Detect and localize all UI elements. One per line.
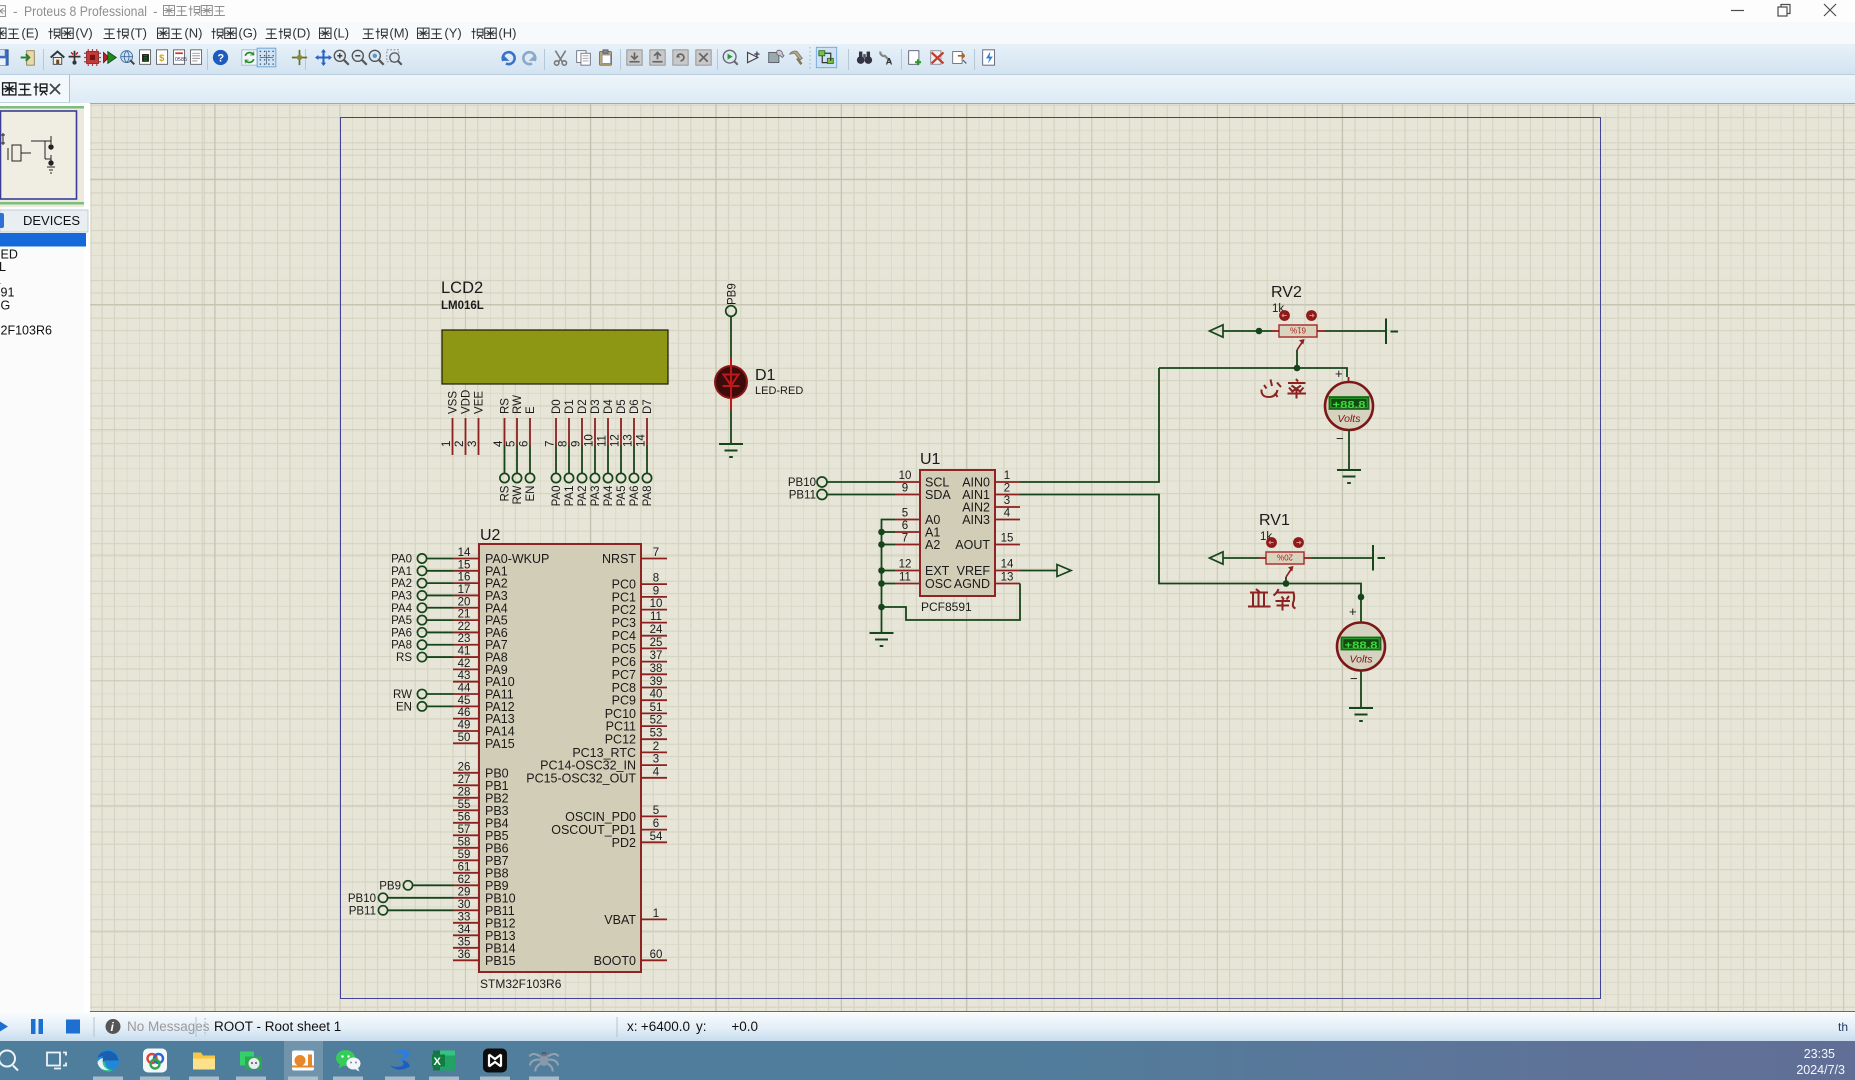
svg-text:Volts: Volts [1350, 654, 1374, 666]
RV1 wiper arrow [1286, 568, 1292, 577]
U2 pin 56 PB4 [453, 822, 479, 824]
svg-text:VREF: VREF [957, 564, 991, 578]
U2 pin 40 PC9 [641, 699, 667, 701]
arrow VREF (off-page) [1057, 565, 1071, 577]
svg-text:2: 2 [454, 441, 466, 447]
U2 pin 26 PB0 [453, 772, 479, 774]
U2 pin 50 PA15 [453, 742, 479, 744]
U2 pin 49 PA14 [453, 730, 479, 732]
svg-text:PA0: PA0 [391, 554, 412, 566]
svg-text:U2: U2 [480, 527, 501, 544]
U2 pin 1 VBAT [641, 918, 667, 920]
svg-text:35: 35 [458, 936, 471, 948]
svg-text:40: 40 [650, 689, 663, 701]
U2 pin 34 PB13 [453, 934, 479, 936]
U1 pin 11 OSC [895, 583, 920, 585]
svg-text:?: ? [217, 52, 224, 64]
svg-text:26: 26 [458, 761, 471, 773]
chip U1 PCF8591 body [920, 470, 995, 596]
RV2 wiper arrow [1297, 341, 1303, 350]
U1 pin 15 AOUT [995, 544, 1020, 546]
svg-text:50: 50 [458, 732, 471, 744]
svg-text:PCF8591: PCF8591 [921, 600, 972, 614]
U2 pin 46 PA13 [453, 718, 479, 720]
U2 pin 8 PC0 [641, 583, 667, 585]
svg-text:6: 6 [902, 520, 908, 532]
svg-text:PB10: PB10 [348, 893, 376, 905]
svg-text:PC12: PC12 [605, 733, 636, 747]
ground (D1) [719, 444, 743, 457]
svg-text:16: 16 [458, 572, 471, 584]
wire PB11-SDA [827, 494, 895, 496]
svg-text:(V): (V) [75, 26, 92, 41]
svg-text:Volts: Volts [1338, 413, 1362, 425]
U1 pin 3 AIN2 [995, 506, 1020, 508]
svg-text:RS: RS [500, 485, 512, 501]
svg-text:12: 12 [610, 434, 622, 447]
U2 pin 30 PB11 [453, 909, 479, 911]
svg-text:8: 8 [653, 573, 659, 585]
svg-text:D6: D6 [629, 399, 641, 414]
LED D1 [715, 358, 747, 410]
wire [594, 445, 596, 473]
wire [620, 445, 622, 473]
svg-text:43: 43 [458, 670, 471, 682]
U2 pin 38 PC7 [641, 673, 667, 675]
terminal PA8 [642, 473, 651, 482]
wire RV2 pin3 (right) to power [1317, 330, 1325, 332]
wire [388, 909, 453, 911]
wire [516, 445, 518, 473]
svg-text:RW: RW [393, 689, 412, 701]
svg-text:(G): (G) [238, 26, 257, 41]
terminal PA3 [590, 473, 599, 482]
svg-text:BOOT0: BOOT0 [594, 954, 636, 968]
wire A0/A1/A2/EXT/OSC bus [882, 520, 896, 634]
svg-text:PB15: PB15 [485, 954, 516, 968]
U1 pin 14 VREF [995, 570, 1020, 572]
wire PB10-SCL [827, 481, 895, 483]
svg-text:STM32F103R6: STM32F103R6 [480, 977, 562, 991]
svg-text:34: 34 [458, 924, 471, 936]
terminal PA6 [629, 473, 638, 482]
wire [427, 582, 453, 584]
svg-text:8: 8 [558, 441, 570, 447]
svg-text:LM016L: LM016L [441, 300, 484, 312]
power symbol (RV1) [1373, 545, 1385, 571]
LCD LCD2 screen [442, 330, 668, 384]
label 心率 (heart rate) [1261, 379, 1306, 399]
ground (V1) [1349, 708, 1373, 721]
wire RV2 wiper down [1296, 350, 1298, 368]
svg-text:D3: D3 [590, 399, 602, 414]
U2 pin 6 OSCOUT_PD1 [641, 829, 667, 831]
wire [427, 631, 453, 633]
svg-text:45: 45 [458, 695, 471, 707]
terminal RW [512, 473, 521, 482]
svg-text:28: 28 [458, 786, 471, 798]
label 血氧 (blood oxygen) [1248, 589, 1296, 611]
wire [427, 693, 453, 695]
U2 pin 2 PC13_RTC [641, 751, 667, 753]
U1 pin 12 EXT [895, 570, 920, 572]
svg-text:+6400.0: +6400.0 [641, 1019, 690, 1034]
svg-text:39: 39 [650, 676, 663, 688]
svg-text:7: 7 [653, 547, 659, 559]
svg-text:−: − [1350, 671, 1358, 686]
svg-text:49: 49 [458, 719, 471, 731]
svg-text:EXT: EXT [925, 564, 950, 578]
terminal RS [500, 473, 509, 482]
svg-text:PC9: PC9 [612, 694, 636, 708]
svg-text:13: 13 [623, 434, 635, 447]
U2 pin 53 PC12 [641, 738, 667, 740]
U2 pin 7 NRST [641, 558, 667, 560]
junction (RV2 left wire) [1256, 328, 1263, 335]
terminal PA2 [577, 473, 586, 482]
svg-text:PD2: PD2 [612, 836, 636, 850]
svg-text:0585: 0585 [175, 57, 187, 63]
svg-text:RW: RW [512, 395, 524, 414]
svg-text:PA4: PA4 [391, 603, 412, 615]
svg-text:13: 13 [1001, 572, 1014, 584]
svg-text:11: 11 [899, 572, 911, 584]
svg-text:A2: A2 [925, 538, 940, 552]
U2 pin 9 PC1 [641, 596, 667, 598]
svg-text:+: + [1349, 604, 1357, 619]
U2 pin 25 PC5 [641, 647, 667, 649]
U2 pin 11 PC3 [641, 622, 667, 624]
svg-text:14: 14 [458, 547, 471, 559]
U2 pin 28 PB2 [453, 797, 479, 799]
node: heart-rate net bus [1159, 368, 1347, 377]
wire voltmeter V2 - to ground [1348, 430, 1350, 470]
U2 pin 60 BOOT0 [641, 959, 667, 961]
svg-text:20: 20 [458, 596, 471, 608]
svg-text:PA4: PA4 [603, 485, 615, 506]
svg-text:A: A [886, 56, 893, 66]
wire [607, 445, 609, 473]
terminal PA5 [616, 473, 625, 482]
wire RV1 wiper down [1285, 577, 1287, 584]
wire [427, 607, 453, 609]
svg-text:U1: U1 [920, 451, 941, 468]
svg-text:PA8: PA8 [391, 640, 412, 652]
svg-text:52: 52 [650, 715, 663, 727]
U2 pin 43 PA10 [453, 681, 479, 683]
svg-text:53: 53 [650, 728, 663, 740]
U1 pin 4 AIN3 [995, 519, 1020, 521]
svg-text:22: 22 [458, 621, 471, 633]
svg-text:1: 1 [1004, 470, 1010, 482]
svg-text:46: 46 [458, 707, 471, 719]
terminal PA0 [551, 473, 560, 482]
wire [504, 445, 506, 473]
ground (U1) [870, 633, 894, 646]
svg-text:(H): (H) [498, 26, 516, 41]
wire [646, 445, 648, 473]
svg-text:VBAT: VBAT [604, 913, 636, 927]
svg-text:PB11: PB11 [789, 490, 816, 502]
wire [633, 445, 635, 473]
U2 pin 4 PC15-OSC32_OUT [641, 777, 667, 779]
U2 pin 37 PC6 [641, 661, 667, 663]
wire [427, 705, 453, 707]
svg-text:14: 14 [636, 434, 648, 447]
svg-text:PA5: PA5 [391, 615, 412, 627]
wire [581, 445, 583, 473]
U1 pin 9 SDA [895, 494, 920, 496]
U2 pin 54 PD2 [641, 841, 667, 843]
wire [427, 558, 453, 560]
svg-text:OSCIN_PD0: OSCIN_PD0 [565, 810, 636, 824]
U1 pin 13 AGND [995, 583, 1020, 585]
svg-text:No Messages: No Messages [127, 1019, 210, 1034]
svg-text:PA2: PA2 [391, 578, 412, 590]
svg-text:+88.8: +88.8 [1345, 640, 1378, 652]
svg-text:PA1: PA1 [391, 566, 412, 578]
svg-text:OSC: OSC [925, 577, 952, 591]
wire [529, 445, 531, 473]
svg-text:PA2: PA2 [577, 486, 589, 507]
U2 pin 17 PA3 [453, 594, 479, 596]
svg-text:(D): (D) [292, 26, 310, 41]
wire [568, 445, 570, 473]
svg-text:30: 30 [458, 899, 471, 911]
svg-text:20%: 20% [1277, 553, 1293, 562]
power symbol (RV2) [1386, 319, 1398, 345]
svg-text:4: 4 [653, 766, 660, 778]
svg-text:10: 10 [650, 598, 663, 610]
wire [427, 644, 453, 646]
svg-text:SDA: SDA [925, 488, 951, 502]
svg-text:+0.0: +0.0 [731, 1019, 758, 1034]
wire [427, 619, 453, 621]
wire RV1 pin3 (right) to power [1304, 557, 1312, 559]
U1 pin 7 A2 [895, 544, 920, 546]
U2 pin 61 PB8 [453, 872, 479, 874]
svg-text:−: − [1336, 431, 1344, 446]
svg-text:61%: 61% [1290, 326, 1306, 335]
svg-text:5: 5 [506, 441, 518, 447]
U2 pin 42 PA9 [453, 668, 479, 670]
svg-text:PC11: PC11 [606, 720, 636, 734]
svg-text:56: 56 [458, 811, 471, 823]
svg-text:ROOT - Root sheet 1: ROOT - Root sheet 1 [214, 1019, 341, 1034]
U2 pin 52 PC11 [641, 725, 667, 727]
wire voltmeter V1 - to ground [1360, 671, 1362, 708]
svg-text:61: 61 [458, 861, 471, 873]
svg-text:59: 59 [458, 849, 471, 861]
svg-text:RW: RW [512, 485, 524, 504]
svg-text:57: 57 [458, 824, 471, 836]
svg-text:-: - [13, 4, 18, 19]
svg-text:PC3: PC3 [612, 616, 636, 630]
U2 pin 3 PC14-OSC32_IN [641, 764, 667, 766]
svg-text:11: 11 [650, 611, 662, 623]
svg-text:6: 6 [653, 818, 659, 830]
svg-text:41: 41 [458, 646, 471, 658]
svg-text:5: 5 [653, 805, 659, 817]
svg-text:PB10: PB10 [788, 477, 816, 489]
svg-text:Proteus 8 Professional: Proteus 8 Professional [24, 4, 147, 19]
wire D1 to ground [730, 410, 732, 444]
svg-text:D5: D5 [616, 399, 628, 414]
svg-text:-: - [153, 4, 158, 19]
U2 pin 51 PC10 [641, 712, 667, 714]
svg-text:2: 2 [653, 741, 659, 753]
ground (V2) [1337, 470, 1361, 483]
svg-text:51: 51 [650, 702, 663, 714]
U2 pin 41 PA8 [453, 656, 479, 658]
svg-text:12: 12 [899, 559, 912, 571]
wire RV2 pin1 (left) with input arrow [1272, 330, 1279, 332]
svg-text:42: 42 [458, 658, 471, 670]
svg-text:+: + [1335, 366, 1343, 381]
svg-text:PC2: PC2 [612, 603, 636, 617]
wire AGND return [882, 584, 1021, 621]
svg-text:3: 3 [467, 441, 479, 447]
terminal PA1 [564, 473, 573, 482]
svg-text:5: 5 [902, 508, 908, 520]
svg-text:62: 62 [458, 874, 471, 886]
svg-text:9: 9 [902, 483, 908, 495]
svg-text:PC5: PC5 [612, 642, 636, 656]
svg-text:21: 21 [458, 609, 471, 621]
U2 pin 59 PB7 [453, 859, 479, 861]
U2 pin 20 PA4 [453, 607, 479, 609]
svg-text:55: 55 [458, 799, 471, 811]
svg-text:33: 33 [458, 911, 471, 923]
svg-text:6: 6 [519, 441, 531, 447]
wire [388, 897, 453, 899]
svg-text:1: 1 [653, 908, 659, 920]
svg-text:D1: D1 [755, 367, 776, 384]
svg-text:D4: D4 [603, 399, 615, 414]
U2 pin 57 PB5 [453, 834, 479, 836]
svg-text:15: 15 [1001, 533, 1014, 545]
svg-text:(E): (E) [21, 26, 38, 41]
U1 pin 6 A1 [895, 531, 920, 533]
svg-text:PA8: PA8 [642, 486, 654, 507]
svg-text:+88.8: +88.8 [1333, 399, 1366, 411]
svg-text:RS: RS [500, 398, 512, 414]
svg-text:25: 25 [650, 637, 663, 649]
svg-text:AIN3: AIN3 [962, 513, 990, 527]
svg-text:PA3: PA3 [590, 486, 602, 507]
junction dots on U1 bus [878, 529, 885, 536]
svg-text:23:35: 23:35 [1804, 1047, 1835, 1061]
U2 pin 14 PA0-WKUP [453, 558, 479, 560]
voltmeter (blood oxygen) [1337, 623, 1385, 671]
wire PB9 to D1 [730, 316, 732, 364]
svg-text:PA6: PA6 [391, 627, 412, 639]
svg-text:VEE: VEE [474, 391, 486, 414]
U2 pin 5 OSCIN_PD0 [641, 815, 667, 817]
svg-text:60: 60 [650, 949, 663, 961]
svg-text:VDD: VDD [461, 390, 473, 414]
svg-text:54: 54 [650, 831, 663, 843]
wire VREF out [1020, 570, 1057, 572]
svg-text:EN: EN [396, 701, 412, 713]
svg-text:9: 9 [653, 585, 659, 597]
wire AIN0 to RV2 net [1020, 368, 1159, 482]
svg-text:D2: D2 [577, 399, 589, 414]
svg-text:(M): (M) [389, 26, 409, 41]
svg-text:(L): (L) [333, 26, 349, 41]
svg-text:th: th [1838, 1020, 1848, 1034]
U2 pin 62 PB9 [453, 884, 479, 886]
svg-text:4: 4 [493, 440, 505, 447]
svg-text:$: $ [159, 53, 165, 63]
U2 pin 55 PB3 [453, 809, 479, 811]
svg-text:17: 17 [458, 584, 471, 596]
svg-text:D0: D0 [551, 399, 563, 414]
U2 pin 35 PB14 [453, 947, 479, 949]
junction V1 + node [1358, 594, 1365, 601]
U2 pin 33 PB12 [453, 922, 479, 924]
svg-text:(T): (T) [130, 26, 147, 41]
svg-text:X: X [434, 1056, 442, 1068]
voltmeter (heart rate) [1325, 382, 1373, 430]
svg-text:15: 15 [458, 559, 471, 571]
svg-text:D1: D1 [564, 399, 576, 414]
U2 pin 24 PC4 [641, 635, 667, 637]
svg-text:14: 14 [1001, 559, 1014, 571]
svg-text:37: 37 [650, 650, 663, 662]
svg-text:PC7: PC7 [612, 668, 636, 682]
svg-text:EN: EN [525, 486, 537, 502]
wire [427, 594, 453, 596]
svg-text:4: 4 [1004, 508, 1011, 520]
U2 pin 21 PA5 [453, 619, 479, 621]
svg-text:3: 3 [1004, 495, 1010, 507]
wire to voltmeter V2 + [1348, 377, 1350, 382]
svg-text:PB11: PB11 [349, 905, 376, 917]
U2 pin 45 PA12 [453, 705, 479, 707]
svg-text:PA5: PA5 [616, 486, 628, 507]
svg-text:38: 38 [650, 663, 663, 675]
U2 pin 22 PA6 [453, 631, 479, 633]
svg-text:PA6: PA6 [629, 486, 641, 507]
U2 pin 58 PB6 [453, 847, 479, 849]
svg-text:36: 36 [458, 949, 471, 961]
svg-text:PA3: PA3 [391, 590, 412, 602]
svg-text:10: 10 [899, 470, 912, 482]
svg-text:9: 9 [571, 441, 583, 447]
wire AIN1 to RV1 net [1020, 495, 1361, 623]
svg-text:VSS: VSS [448, 391, 460, 414]
svg-text:LCD2: LCD2 [441, 279, 483, 297]
svg-text:27: 27 [458, 774, 471, 786]
svg-text:29: 29 [458, 886, 471, 898]
svg-text:AOUT: AOUT [955, 538, 990, 552]
svg-text:58: 58 [458, 836, 471, 848]
svg-text:(Y): (Y) [444, 26, 461, 41]
svg-text:PA0: PA0 [551, 486, 563, 507]
wire [427, 656, 453, 658]
svg-text:PB9: PB9 [379, 880, 401, 892]
terminal EN [525, 473, 534, 482]
svg-text:RV1: RV1 [1259, 512, 1290, 529]
svg-text:RV2: RV2 [1271, 284, 1302, 301]
U2 pin 15 PA1 [453, 570, 479, 572]
svg-text:LED-RED: LED-RED [755, 385, 803, 397]
svg-text:11: 11 [597, 435, 609, 447]
U2 pin 10 PC2 [641, 609, 667, 611]
svg-text:D7: D7 [642, 399, 654, 414]
svg-text:3: 3 [653, 754, 659, 766]
